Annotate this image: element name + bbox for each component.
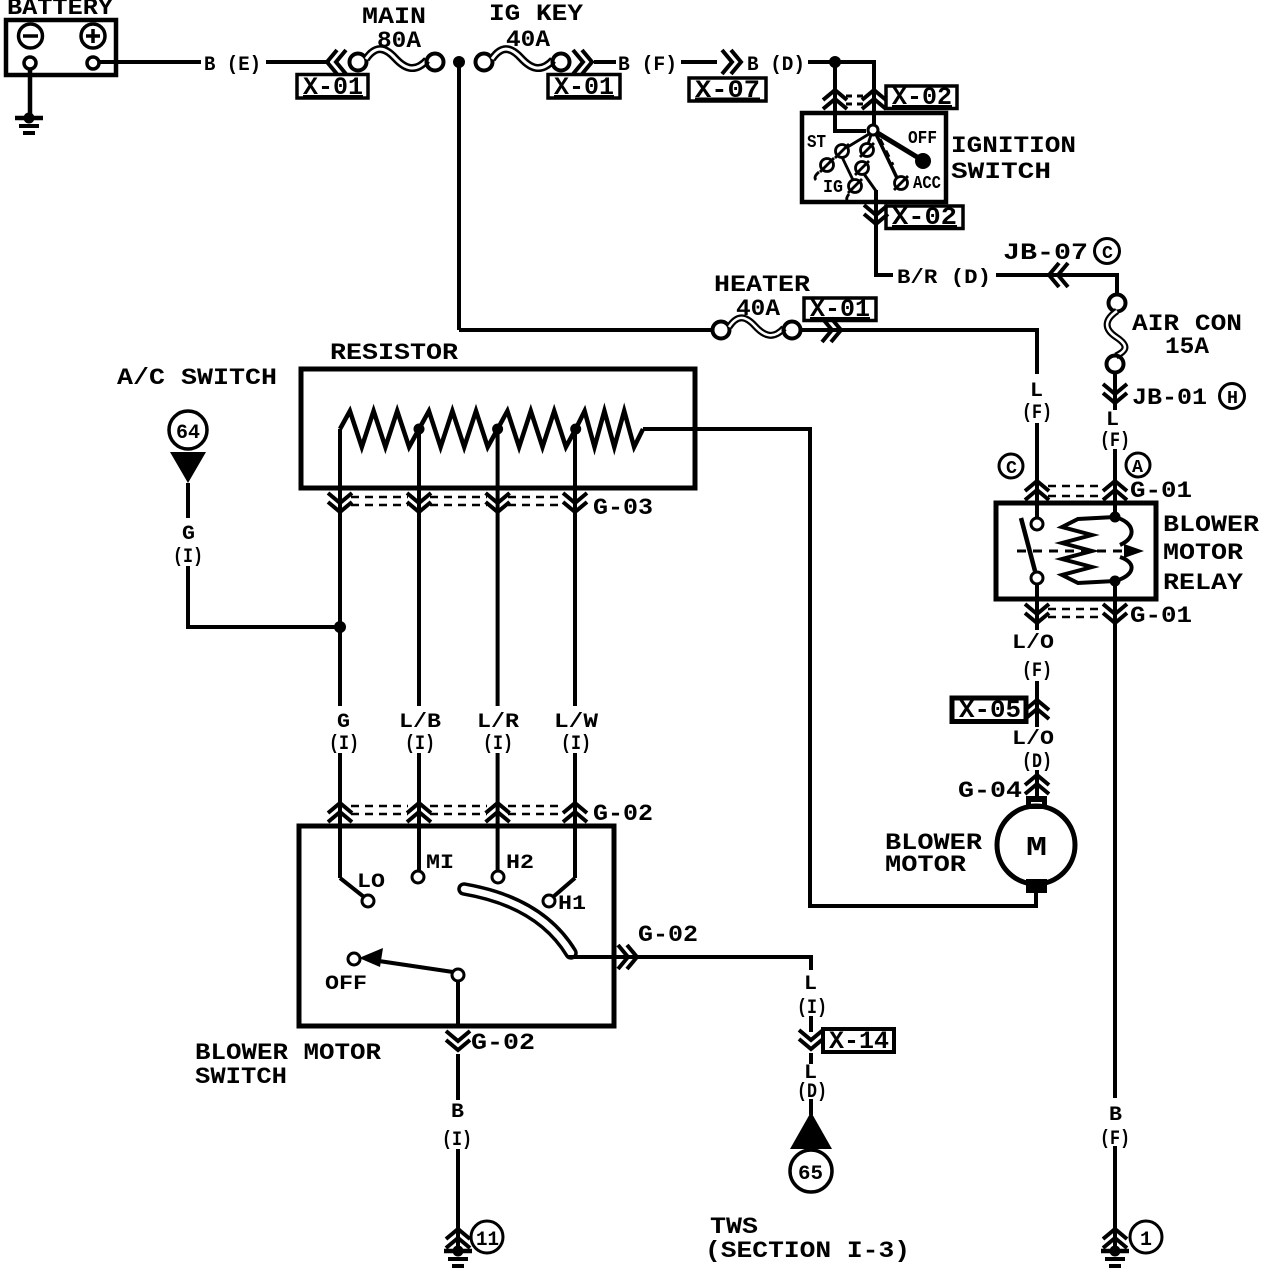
wire (681, 60, 717, 64)
svg-text:A: A (1132, 458, 1143, 478)
svg-text:G-04: G-04 (958, 778, 1022, 804)
svg-text:ACC: ACC (913, 174, 941, 194)
fuse IG KEY 40A (476, 1, 584, 71)
wire down from junction (833, 62, 837, 113)
wire from A/C switch (186, 483, 190, 518)
node C (999, 454, 1023, 478)
connector X-01 left (297, 50, 368, 102)
svg-text:X-01: X-01 (810, 295, 870, 324)
svg-text:L/W: L/W (554, 711, 598, 734)
connector X-01 heater (804, 295, 876, 342)
svg-text:G-02: G-02 (638, 922, 698, 948)
arrow 65 (790, 1112, 832, 1149)
wire (1035, 423, 1039, 523)
svg-text:H: H (1227, 389, 1238, 409)
svg-text:A/C SWITCH: A/C SWITCH (117, 365, 277, 391)
wire to relay right (1113, 449, 1117, 517)
svg-text:OFF: OFF (325, 973, 367, 996)
svg-text:H1: H1 (558, 893, 586, 916)
connector chevron (446, 1229, 470, 1248)
svg-text:(I): (I) (405, 733, 435, 756)
svg-text:C: C (1006, 459, 1017, 479)
svg-text:BLOWER: BLOWER (1163, 512, 1259, 538)
H2 contact (492, 871, 504, 883)
svg-text:65: 65 (798, 1163, 823, 1186)
svg-text:(I): (I) (483, 733, 513, 756)
svg-text:L: L (1030, 380, 1043, 403)
rotary wiper arc (464, 889, 571, 953)
blower motor switch S2 (299, 826, 614, 1026)
wire (809, 1099, 813, 1115)
svg-text:B (F): B (F) (618, 54, 677, 77)
H1 contact (553, 878, 575, 897)
wire junction down to heater (457, 62, 461, 330)
wire B(E) (99, 60, 201, 64)
svg-text:L/O: L/O (1012, 728, 1054, 751)
svg-text:(F): (F) (1022, 402, 1052, 425)
svg-text:(SECTION I-3): (SECTION I-3) (705, 1238, 910, 1264)
svg-text:IG KEY: IG KEY (489, 1, 583, 27)
wire (1035, 770, 1039, 797)
svg-text:X-02: X-02 (892, 203, 957, 232)
svg-text:X-02: X-02 (892, 83, 952, 112)
connector X-02 bottom (864, 203, 963, 232)
svg-text:C: C (1102, 244, 1113, 264)
svg-text:(I): (I) (442, 1129, 472, 1152)
dashed middle (880, 139, 893, 165)
svg-text:(I): (I) (329, 733, 359, 756)
wire (809, 1053, 813, 1064)
wire below fuse (1113, 372, 1117, 410)
ground (battery) (15, 113, 43, 134)
MI contact (412, 871, 424, 883)
svg-text:X-07: X-07 (695, 76, 760, 105)
svg-text:G-03: G-03 (593, 495, 653, 521)
svg-text:ST: ST (807, 133, 826, 153)
svg-text:15A: 15A (1165, 334, 1209, 360)
svg-text:B (E): B (E) (204, 54, 261, 77)
svg-text:L/O: L/O (1012, 632, 1054, 655)
svg-text:MOTOR: MOTOR (1163, 540, 1243, 566)
connector chevron (1103, 1229, 1127, 1248)
svg-text:BLOWER MOTOR: BLOWER MOTOR (195, 1040, 381, 1066)
wire (266, 60, 330, 64)
svg-text:M: M (1026, 834, 1047, 864)
svg-text:(F): (F) (1022, 660, 1052, 683)
ACC lever (876, 134, 897, 178)
connector X-14 (799, 1027, 894, 1056)
wire resistor output to motor (694, 429, 1036, 906)
fuse HEATER 40A (713, 272, 811, 339)
wire stub to B(F) (594, 60, 616, 64)
wire to air con fuse (996, 275, 1117, 295)
ignition switch S1 (802, 113, 946, 275)
connector JB-07 chevron (1049, 263, 1068, 287)
svg-text:JB-07: JB-07 (1003, 240, 1088, 266)
wire heater to relay left (800, 330, 1037, 374)
svg-text:OFF: OFF (908, 129, 937, 149)
wire to ground (456, 1149, 460, 1248)
node A (1126, 453, 1150, 477)
wire B/R(D) corner (876, 273, 893, 275)
svg-text:SWITCH: SWITCH (951, 159, 1051, 185)
connector X-05 (952, 696, 1049, 725)
wire to ground (1113, 1146, 1117, 1248)
resistor taps down (338, 429, 342, 706)
connector G-04 (958, 775, 1049, 804)
svg-text:G-01: G-01 (1130, 478, 1192, 504)
ground 1 (1101, 1246, 1129, 1267)
svg-text:IGNITION: IGNITION (951, 133, 1076, 159)
svg-text:X-05: X-05 (959, 696, 1021, 725)
svg-text:B (D): B (D) (747, 54, 805, 77)
svg-text:L: L (1106, 409, 1119, 432)
connector G-02 right (618, 945, 637, 969)
OFF contact (348, 953, 360, 965)
svg-text:LO: LO (357, 871, 385, 894)
svg-text:RESISTOR: RESISTOR (330, 340, 458, 366)
connector G-01 top (1025, 478, 1192, 504)
wire relay left down (1035, 584, 1039, 630)
svg-text:HEATER: HEATER (714, 272, 810, 298)
connector G-03 (328, 493, 653, 521)
svg-text:1: 1 (1140, 1229, 1152, 1252)
wire (809, 1016, 813, 1032)
wire relay right down (1113, 584, 1117, 1098)
svg-text:RELAY: RELAY (1163, 570, 1243, 596)
arrow 64 (170, 452, 206, 483)
blower motor M1 (997, 796, 1075, 893)
svg-text:B: B (1109, 1104, 1122, 1127)
connector G-02 top (328, 801, 653, 827)
connector G-02 below switch (446, 1030, 535, 1056)
resistor element (340, 411, 697, 447)
blower motor relay K1 (996, 503, 1156, 599)
svg-text:X-14: X-14 (829, 1027, 889, 1056)
svg-text:X-01: X-01 (554, 73, 614, 102)
ground 11 (444, 1246, 472, 1267)
svg-text:(I): (I) (173, 546, 203, 569)
junction node B(D) (829, 56, 841, 68)
svg-text:(I): (I) (561, 733, 591, 756)
battery B1 (6, 0, 116, 75)
svg-text:G: G (182, 523, 195, 546)
svg-text:G: G (337, 711, 350, 734)
connector JB-01 H (1103, 384, 1245, 412)
junction node G (334, 621, 346, 633)
connector G-01 bottom (1025, 603, 1192, 629)
circle 65 (790, 1150, 832, 1192)
OFF position lever (876, 132, 917, 157)
svg-text:MI: MI (426, 852, 454, 875)
LO contact (340, 878, 364, 897)
wire B(D) to ignition (808, 60, 874, 64)
connector X-01 right (548, 50, 620, 102)
svg-text:B: B (451, 1101, 464, 1124)
junction node main (453, 56, 465, 68)
links (846, 134, 869, 148)
svg-text:L/B: L/B (399, 711, 441, 734)
svg-text:64: 64 (176, 422, 200, 445)
svg-text:X-01: X-01 (303, 73, 363, 102)
exit wire (874, 190, 878, 275)
fuse AIR CON 15A (1107, 295, 1243, 373)
svg-text:11: 11 (476, 1229, 499, 1252)
svg-text:TWS: TWS (710, 1214, 758, 1240)
svg-text:L: L (804, 973, 817, 996)
svg-text:SWITCH: SWITCH (195, 1064, 287, 1090)
fuse MAIN 80A (350, 4, 444, 71)
connector X-07 (689, 50, 766, 105)
wire down (456, 1054, 460, 1100)
contacts (836, 145, 849, 158)
svg-text:L/R: L/R (477, 711, 519, 734)
wire heater row (459, 328, 713, 332)
svg-text:G-02: G-02 (471, 1030, 535, 1056)
wire switch output right (568, 957, 811, 970)
svg-text:JB-01: JB-01 (1132, 385, 1207, 411)
wires resume below labels (338, 753, 342, 878)
svg-text:G-01: G-01 (1130, 603, 1192, 629)
wire battery negative to ground (28, 69, 33, 116)
circle 64 (169, 411, 207, 449)
wire (1035, 681, 1039, 727)
svg-text:H2: H2 (506, 852, 534, 875)
svg-text:MOTOR: MOTOR (885, 852, 966, 878)
svg-text:B/R (D): B/R (D) (897, 267, 991, 290)
relay coil (1110, 512, 1121, 523)
lever (372, 960, 453, 972)
svg-text:IG: IG (823, 178, 843, 198)
svg-text:MAIN: MAIN (362, 4, 426, 30)
resistor R1 box (301, 369, 695, 488)
svg-text:G-02: G-02 (593, 801, 653, 827)
connector X-02 top (823, 83, 957, 112)
wire corner into ignition (872, 62, 874, 126)
wire to junction (188, 566, 340, 627)
